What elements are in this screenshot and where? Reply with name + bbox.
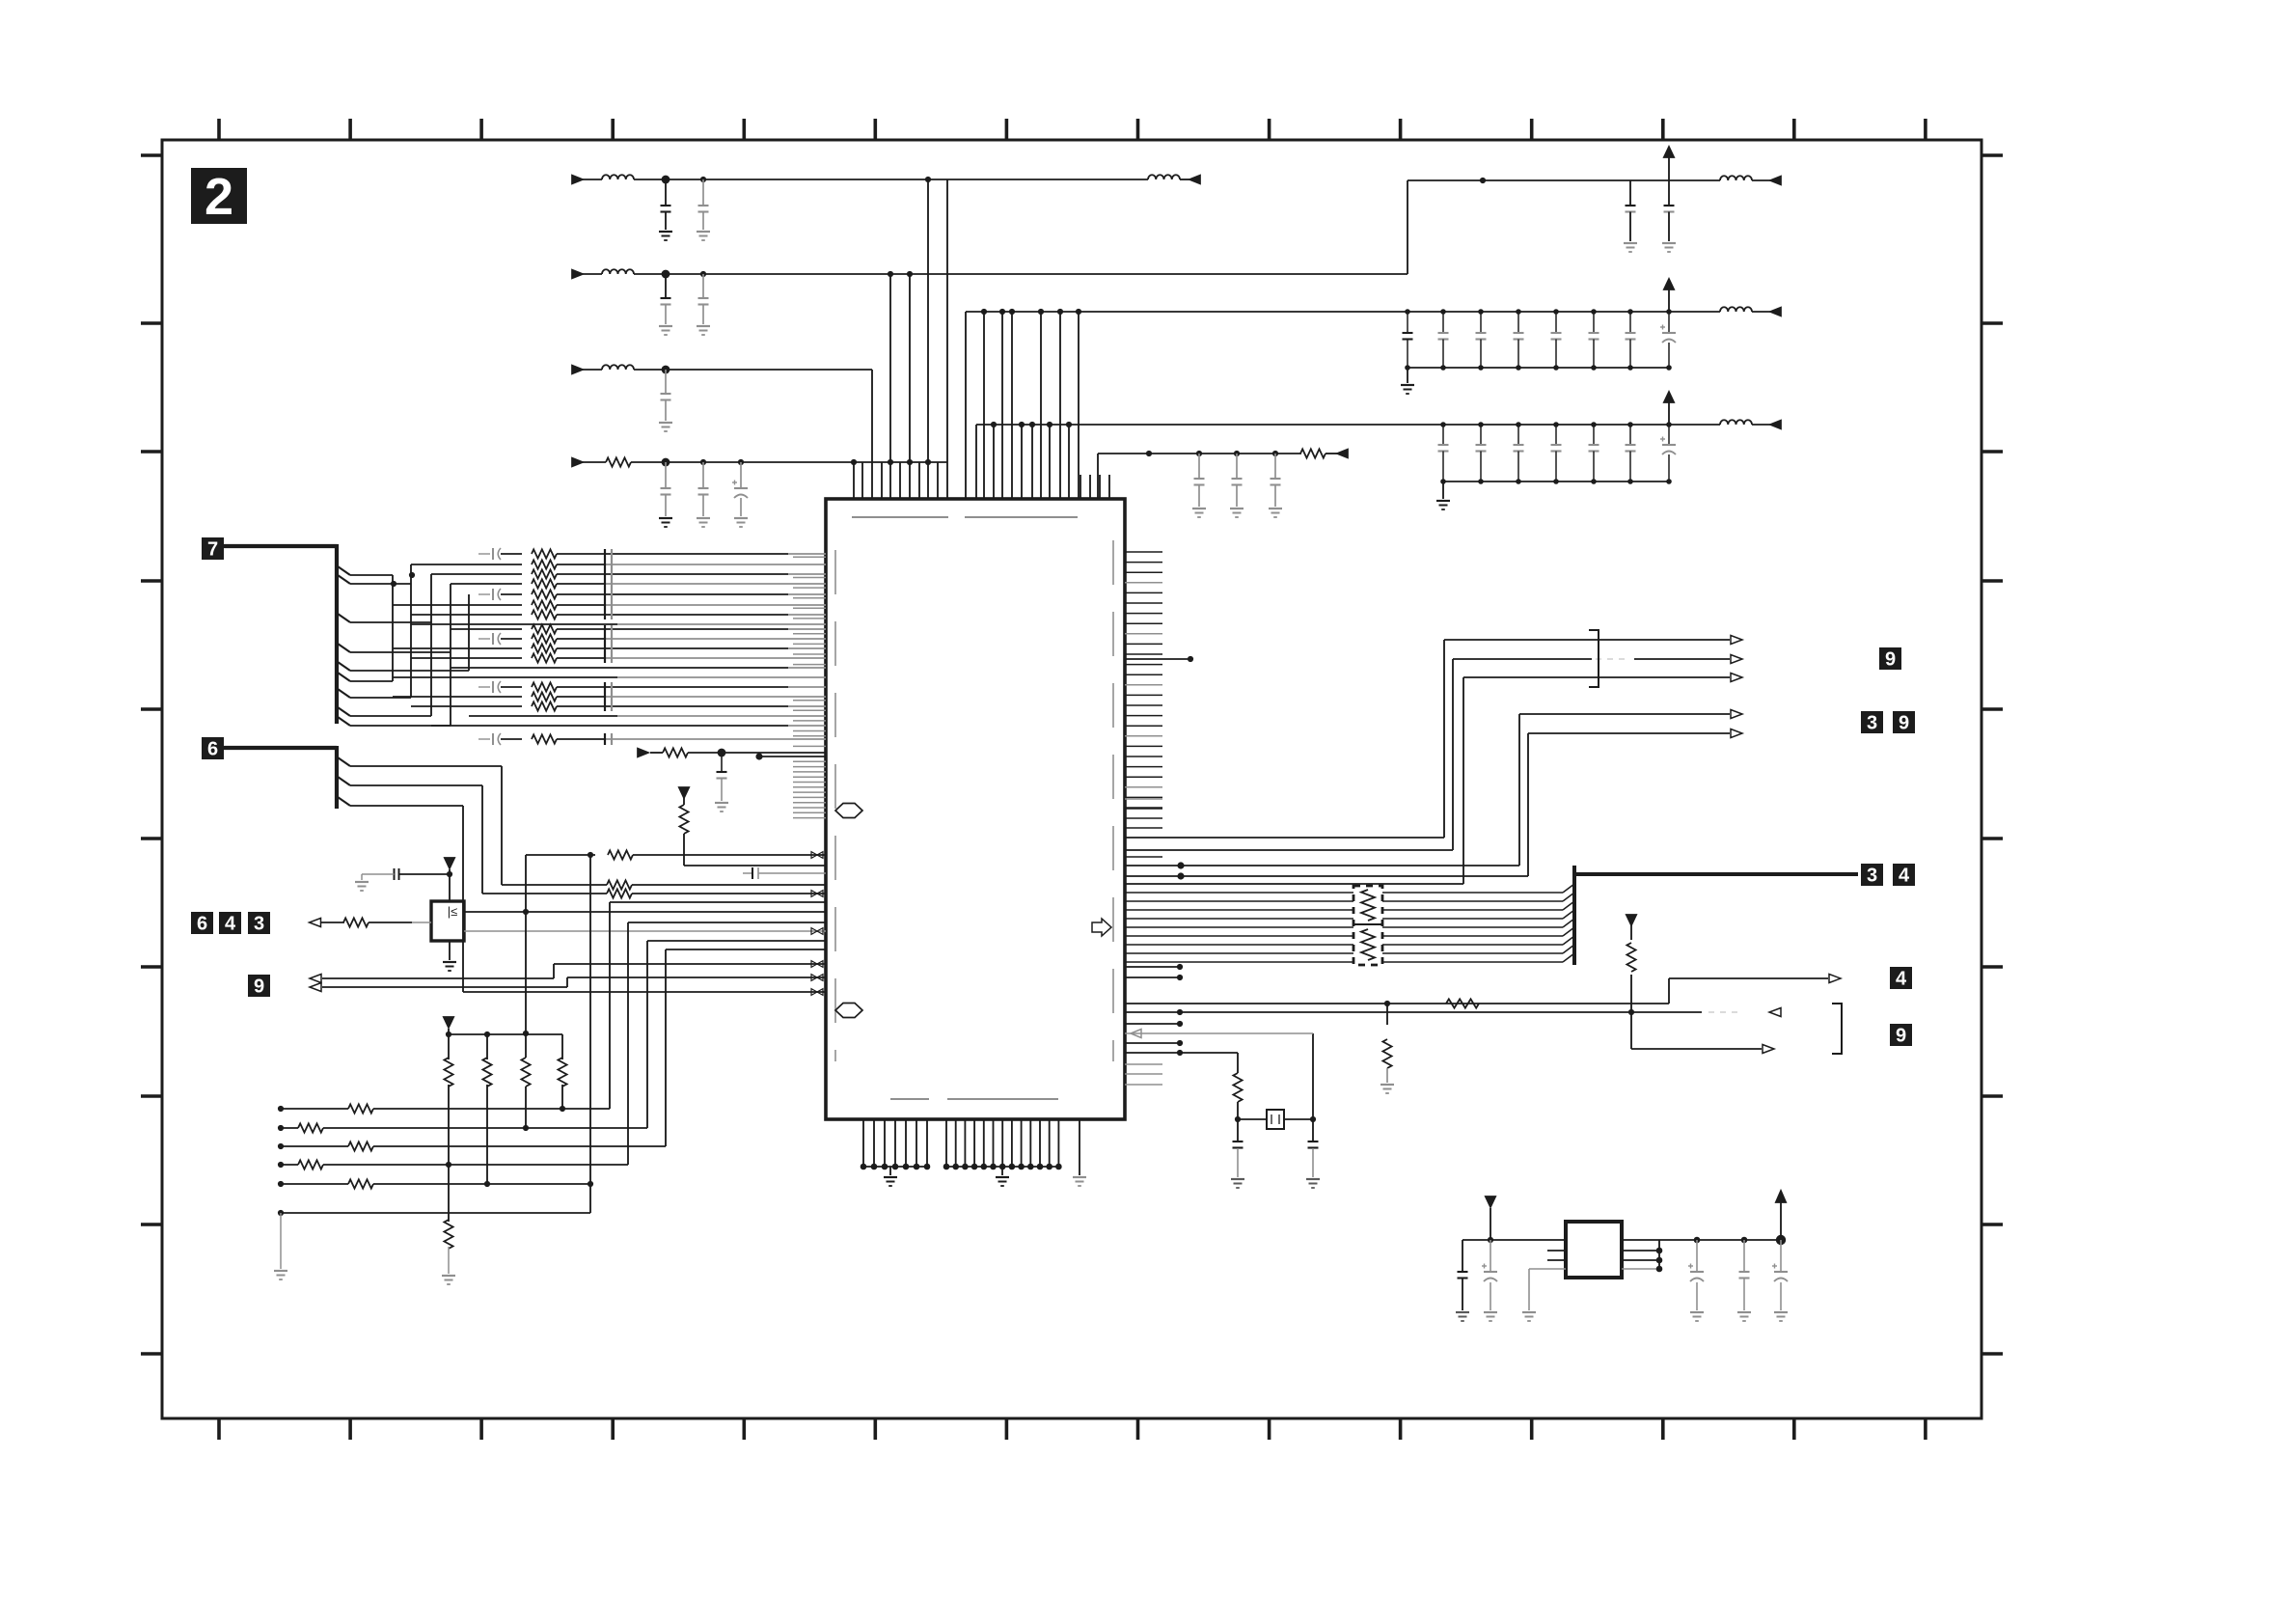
svg-text:4: 4 — [1899, 866, 1910, 887]
svg-text:4: 4 — [1896, 969, 1907, 990]
svg-text:9: 9 — [254, 977, 264, 998]
svg-text:3: 3 — [1867, 866, 1877, 887]
svg-text:2: 2 — [205, 168, 233, 226]
svg-text:7: 7 — [207, 539, 218, 561]
svg-text:4: 4 — [225, 914, 236, 935]
svg-text:3: 3 — [254, 914, 264, 935]
svg-text:9: 9 — [1885, 649, 1896, 671]
svg-text:9: 9 — [1899, 713, 1909, 734]
svg-text:6: 6 — [197, 914, 207, 935]
svg-text:3: 3 — [1867, 713, 1877, 734]
svg-text:6: 6 — [207, 739, 218, 760]
svg-text:|≤: |≤ — [448, 904, 458, 919]
svg-text:9: 9 — [1896, 1026, 1906, 1047]
